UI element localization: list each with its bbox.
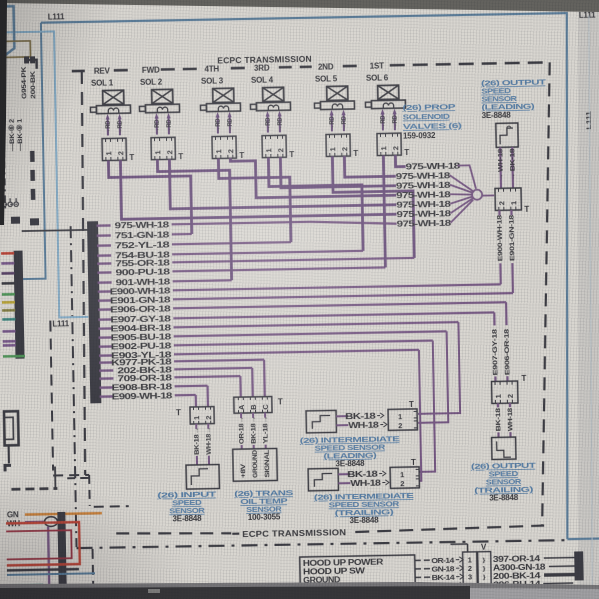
wire K977-PK-18 run [174,360,264,362]
connector (trans oil temp sensor) [234,396,283,413]
wire label A300-GN-18 [493,563,547,573]
wire crimson loop [6,530,72,559]
wire BU-14 to hood pin 4 [415,581,463,591]
wire red loop [6,522,80,565]
trans oil temp sensor body (+8V GROUND SIGNAL) [233,448,278,481]
svg-text:T: T [129,153,134,162]
svg-text:B: B [249,404,258,410]
wire E900-WH-18 run [173,284,501,290]
svg-text:→RD: →RD [166,119,173,133]
svg-text:1: 1 [494,394,503,398]
wire purple w/ splice [25,517,62,527]
svg-text:100-3055: 100-3055 [248,512,281,522]
svg-text:→RD: →RD [265,117,272,131]
ECPC TRANSMISSION top label [217,54,312,66]
svg-text:1: 1 [153,150,162,154]
wire 709-OR to temp sensor pin A [239,376,242,397]
wire stub (#7a7434) [2,309,15,312]
wire label BK-5 2 (rotated) [8,119,17,152]
svg-text:1: 1 [398,412,402,421]
wire label E909-WH-18 [112,391,173,402]
svg-text:T: T [176,408,181,417]
wire stub E902-PU-18 [99,345,113,348]
wire E906-OR-18 drop (trailing) [503,302,511,381]
solenoid valve SOL 2 (FWD) [139,65,184,162]
solenoid valve SOL 1 (REV) [90,66,135,163]
wire 975-WH-18 run [172,220,397,228]
svg-text:WH-18→: WH-18→ [205,427,213,455]
svg-text:T: T [289,150,294,159]
node label L111 (top left) [48,12,65,21]
svg-text:T: T [178,152,183,161]
wire 752-YL-18 run [172,242,291,244]
wire sol6 pin2 to 975 fan row1 [395,155,405,167]
wire label 975-WH-18 (fan 7) [397,218,452,229]
intermediate speed sensor leading: sensor body [306,410,336,433]
wire stub (#6b4a7e) [3,340,16,343]
wire E908 to input sensor pin2 [206,386,209,407]
wire label E903-YL-18 [111,350,172,361]
wire sol4 pin1 to 754-BU-18 [268,156,363,253]
wire OR-14 to hood pin 1 [415,556,463,566]
connector (trailing output sensor) [491,374,527,404]
solenoid valve SOL 3 (4TH) [200,64,245,161]
wire stub (#b43428) [1,252,14,255]
svg-text:1: 1 [264,148,273,152]
svg-text:A: A [237,404,246,410]
harness bus bar [88,222,101,403]
label (26) OUTPUT SPEED SENSOR (LEADING) 3E-8848 [481,77,547,120]
svg-text:+8V: +8V [240,463,247,478]
dashed boundary jog (left-bottom) [50,319,128,507]
wire stub E909-WH-18 [100,395,114,398]
svg-text:→RD: →RD [392,115,399,129]
svg-text:3E-8848: 3E-8848 [172,514,202,524]
wire label 755-OR-18 [115,258,170,269]
wires OR-18 / BK-18 / YL-18 (temp sensor) [238,413,270,450]
output speed sensor trailing: sensor body [492,437,516,459]
wire stub 975-WH-18 [97,224,111,227]
svg-text:❵: ❵ [482,574,487,581]
wire stub 751-GN-18 [97,234,111,237]
wire label E901-GN-18 [110,295,171,306]
intermediate speed sensor trailing: sensor body [308,468,338,491]
wire label E900-WH-18 [110,286,171,297]
wire 900-PU-18 run [172,267,385,271]
svg-text:C: C [261,404,270,410]
svg-text:2: 2 [391,146,400,150]
svg-text:—BK-⑨ 1: —BK-⑨ 1 [16,118,25,151]
wire stub (#6b4a7e) [3,344,16,347]
connector (input speed sensor) [176,407,214,425]
svg-text:1ST: 1ST [370,61,385,70]
input speed sensor: sensor body [186,465,219,490]
wire WH-18 (trailing sensor) [507,403,515,437]
wire 755-OR-18 run [172,258,414,262]
left harness: terminal blobs [11,217,38,225]
node label L111 (top right) [579,11,596,20]
svg-text:3E-8848: 3E-8848 [489,493,519,503]
wire label 975-WH-18 [115,220,170,231]
hood connector pin box [463,552,478,590]
svg-text:REV: REV [94,66,111,75]
wire stub K977-PK-18 [99,361,113,364]
svg-text:L111: L111 [48,12,65,21]
wire L111 (left drop) [13,23,46,279]
left harness: pin marks G954 [25,57,37,69]
svg-text:2: 2 [226,149,235,153]
svg-text:ECPC TRANSMISSION: ECPC TRANSMISSION [242,527,346,539]
wire E907-GY-18 run [173,312,494,318]
svg-text:2: 2 [398,421,402,430]
connector (trailing intermediate) [390,458,420,489]
svg-text:2: 2 [276,148,285,152]
wire stub (#4a3058) [1,272,14,275]
svg-text:159-0932: 159-0932 [403,131,436,141]
svg-text:200-BK: 200-BK [30,71,38,99]
svg-text:1: 1 [214,149,223,153]
bold dashed wire [11,466,57,489]
ECPC bottom dashed border [116,526,544,537]
svg-text:E900-WH-18: E900-WH-18 [496,215,504,262]
svg-text:→ BK-18: → BK-18 [509,148,517,181]
svg-text:4TH: 4TH [204,64,219,73]
svg-text:SOLENOID: SOLENOID [403,112,451,122]
wire E909 to input sensor pin1 [195,395,197,407]
wire label 901-WH-18 [116,277,171,288]
svg-text:→RD: →RD [277,117,284,131]
wire E908-BR-18 run [175,385,208,388]
wire stub (#6b4a7e) [1,262,14,265]
svg-text:1: 1 [104,151,113,155]
left connector (nested rectangles) [4,411,19,463]
wire stub 901-WH-18 [98,281,112,284]
wire stub E900-WH-18 [98,290,112,293]
label (26) PROP SOLENOID VALVES (6) 159-0932 [402,102,462,141]
wire label BK-9 1 (rotated) [16,118,25,151]
label (26) INPUT SPEED SENSOR 3E-8848 [157,490,217,524]
svg-text:WH-18: WH-18 [507,407,514,431]
wire label 975-WH-18 (fan 6) [396,208,451,219]
svg-text:SOL 2: SOL 2 [140,77,163,86]
svg-text:3E-8848: 3E-8848 [350,516,380,526]
solenoid valve SOL 4 (3RD) [250,63,295,160]
wire sol3 pin1 to 752-YL-18 [218,157,291,243]
svg-text:ECPC TRANSMISSION: ECPC TRANSMISSION [217,54,312,66]
svg-text:G954-PK: G954-PK [21,66,29,99]
wire stub (#3f8a4a) [2,293,15,296]
svg-text:SOL 4: SOL 4 [251,75,274,84]
svg-text:VALVES (6): VALVES (6) [403,121,463,131]
svg-text:T: T [353,149,358,158]
photo: left bezel [0,0,7,225]
svg-text:SOL 3: SOL 3 [201,76,224,85]
wire E905-BU-18 run [174,331,447,336]
wire sol6 pin1 to 900-PU-18 [383,155,385,267]
wire label 751-GN-18 [115,230,170,241]
wire label E905-BU-18 [111,332,172,343]
wire sol3 pin2 to 975 fan row4 [230,155,396,198]
svg-text:E901-GN-18: E901-GN-18 [508,214,516,261]
wire stub 755-OR-18 [97,262,111,265]
wire E904-BR-18 run [173,322,458,327]
label (26) TRANS OIL TEMP SENSOR 100-3055 [234,488,294,522]
wire GN-18 to hood pin 2 [415,564,463,574]
wire stub E906-OR-18 [98,308,112,311]
wire stub E907-GY-18 [98,318,112,321]
left harness: round-pin connector [0,198,20,207]
svg-text:❵: ❵ [481,566,486,573]
ECPC TRANSMISSION boundary (top dashed border) [72,62,550,71]
svg-text:T: T [521,374,526,383]
svg-text:OR-18→: OR-18→ [238,416,246,444]
svg-text:1: 1 [400,470,404,479]
wire E900-WH-18 drop [496,210,504,284]
svg-text:2: 2 [400,479,404,488]
svg-text:T: T [239,151,244,160]
svg-text:2: 2 [497,201,506,205]
wire label E904-BR-18 [110,323,171,334]
photo: bottom bezel [0,582,599,592]
label (26) INTERMEDIATE SPEED SENSOR (TRAILING) 3E-8848 [314,491,414,526]
svg-text:→RD: →RD [215,118,222,132]
wire E907-GY-18 drop (trailing) [491,312,499,381]
wire stub (#2c2c30) [2,282,15,285]
wire label 709-OR-18 [117,373,172,384]
wire label 396-BU-14 [493,580,541,590]
svg-text:GN: GN [7,510,19,519]
wire E903-YL-18 run [174,350,419,354]
left harness: olive connector outline [5,41,30,57]
wire stub 754-BU-18 [97,254,111,257]
svg-text:SOL 6: SOL 6 [366,73,389,82]
svg-text:2: 2 [340,147,349,151]
wire 751-GN-18 run [172,233,192,236]
wire label 975-WH-18 (fan 5) [396,199,451,210]
wire label 900-PU-18 [115,267,170,278]
svg-text:T: T [411,458,416,467]
wire E903 to trailing intermediate pin2 [417,350,421,481]
svg-text:BK-18→: BK-18→ [193,427,201,455]
wire label 975-WH-18 (fan 2) [396,170,451,181]
wire E904 to leading intermediate pin1 [416,322,460,414]
wire to bus (black) [22,230,89,231]
svg-text:L111: L111 [579,11,596,20]
svg-text:975-WH-18: 975-WH-18 [397,218,452,229]
wire label E906-OR-18 [110,304,171,315]
wire E901-GN-18 run [173,293,513,299]
svg-text:GROUND: GROUND [252,449,260,478]
wire stub 900-PU-18 [97,271,111,274]
svg-text:BK-18: BK-18 [495,408,502,432]
wire stub E901-GN-18 [98,299,112,302]
ECPC right dashed border [534,62,558,524]
wire label 975-WH-18 (fan 4) [396,189,451,200]
svg-text:→RD: →RD [117,120,124,134]
svg-text:→RD: →RD [329,116,336,130]
dash fragment [67,477,89,479]
svg-text:→ WH-18: → WH-18 [497,148,505,181]
svg-text:2: 2 [116,151,125,155]
wire WH-18 (leading sensor) [497,147,505,188]
wire stub green (bottom of stub bus) [3,355,25,358]
wire label 975-WH-18 (fan 3) [396,180,451,191]
wire stub 202-BK-18 [99,369,113,372]
wire label 752-YL-18 [115,240,170,251]
svg-text:❵: ❵ [481,557,486,564]
left harness: blue hook top corner [0,6,15,59]
svg-text:→RD: →RD [227,118,234,132]
svg-text:WH-18: WH-18 [348,420,379,431]
svg-text:T: T [409,400,414,409]
svg-text:2: 2 [165,150,174,154]
solenoid valve SOL 5 (2ND) [314,62,359,159]
wire stub E904-BR-18 [98,327,112,330]
wire label E908-BR-18 [111,382,172,393]
svg-text:T: T [524,205,529,214]
faint second screen line (far right) [582,16,599,595]
wire L111 (left branch to bus) [0,31,88,319]
connector V marker [450,543,487,553]
node label GN [7,510,19,519]
wire sol2 pin1 to 901-WH-18 [157,158,231,281]
node label L111 (mid left) [52,319,69,328]
wire black horizontal [7,569,79,570]
left margin dash-dot line [3,59,6,211]
wire stub (#b09a28) [2,301,15,304]
wire orange [25,513,102,514]
svg-text:SOL 5: SOL 5 [315,74,338,83]
svg-text:2ND: 2ND [318,62,334,71]
svg-text:→RD: →RD [380,115,387,129]
svg-text:E909-WH-18: E909-WH-18 [112,391,173,402]
wire E901-GN-18 drop [508,210,517,293]
svg-text:1: 1 [328,147,337,151]
node label L111 (right, rotated) [586,111,593,130]
svg-text:3RD: 3RD [254,64,270,73]
solenoid valve SOL 6 (1ST) [365,61,410,158]
wires BK-18 / WH-18 (leading intermediate) [336,410,387,430]
hood signal description box [300,555,416,595]
svg-text:→RD: →RD [341,116,348,130]
photo: top bezel edge [0,0,599,12]
wire stub (#6b4a7e) [3,330,16,333]
left stub bus bar [14,251,24,358]
wire sol5 pin1 to 755-OR-18 [332,155,414,259]
wire label 754-BU-18 [115,250,170,261]
wire E906-OR-18 run [173,302,506,308]
svg-text:L111: L111 [52,319,69,328]
hood harness stub bar [543,552,584,584]
svg-text:E907-GY-18: E907-GY-18 [492,329,500,376]
wire sol4 pin2 to 975 fan row3 [280,155,396,188]
wire stub E903-YL-18 [99,354,113,357]
wire L111 (top horizontal) [41,13,568,23]
heavy black wire (bottom left) [58,512,66,588]
svg-text:(26) PROP: (26) PROP [402,102,455,112]
ECPC TRANSMISSION bottom label [242,527,346,539]
wire E905 to leading intermediate pin2 [417,331,449,423]
wire 901-WH-18 run [173,280,232,281]
wire L111 (right vertical) [558,13,599,540]
wire sol1 pin1 to 751-GN-18 [108,159,191,235]
svg-text:WH-18: WH-18 [350,478,381,489]
wire BK-18 (trailing sensor) [495,403,503,437]
svg-text:1: 1 [379,146,388,150]
svg-text:SOL 1: SOL 1 [91,78,114,87]
ECPC left dashed border [78,71,89,475]
wire E902 to trailing intermediate pin1 [417,341,435,472]
wire sol5 pin2 to 975 fan row2 [344,155,395,177]
svg-text:→RD: →RD [154,119,161,133]
wire stub (#2f7a72) [2,318,15,321]
wire 709-OR-18 run [174,376,240,377]
wire sol2 pin2 to 975 fan row5 [169,155,396,209]
left margin bold dashes [30,151,35,201]
wire label G954-PK (rotated) [21,66,29,99]
wire label 200-BK-14 [493,571,541,581]
wire stub E905-BU-18 [99,336,113,339]
outer dash-dot boundary (bottom) [71,217,566,587]
wire K977-PK to temp sensor pin C [263,360,266,397]
connector (leading output sensor) [495,188,529,215]
wire BK-14 to hood pin 3 [415,573,463,583]
wire stub 752-YL-18 [97,244,111,247]
svg-text:3E-8848: 3E-8848 [335,459,365,469]
svg-text:SIGNAL: SIGNAL [264,449,272,477]
junction node (975 common splice) [450,165,495,223]
svg-text:—BK-⑥ 2: —BK-⑥ 2 [8,119,17,152]
wire label 200-BK (rotated) [30,71,38,99]
wire label K977-PK-18 [111,357,172,368]
wire sol1 pin2 to 975 fan row6 [120,155,396,219]
output speed sensor leading: sensor body [496,123,518,147]
svg-text:1: 1 [192,416,201,420]
svg-text:1: 1 [509,201,518,205]
svg-text:YL-18→: YL-18→ [262,416,270,444]
connector (leading intermediate) [388,400,418,431]
svg-text:3E-8848: 3E-8848 [482,111,512,121]
wires BK-18 / WH-18 (trailing intermediate) [338,468,389,488]
svg-text:→RD: →RD [105,120,112,134]
wire purple drop [48,527,49,587]
node label WH [7,519,21,528]
wire label 397-OR-14 [493,554,541,564]
wire 202-BK-18 run [174,368,252,369]
label (26) INTERMEDIATE SPEED SENSOR (LEADING) 3E-8848 [300,434,400,469]
wire 202-BK to temp sensor pin B [251,368,254,397]
hood connector contact box [478,552,492,590]
svg-text:BK-18→: BK-18→ [250,416,258,444]
wire label 975-WH-18 (fan 1) [405,161,460,172]
wire label 202-BK-18 [117,365,172,376]
wire 754-BU-18 run [172,251,363,255]
svg-text:FWD: FWD [142,66,160,75]
wire label E902-PU-18 [111,341,172,352]
svg-text:T: T [404,148,409,157]
wire label E907-GY-18 [110,314,171,325]
svg-text:2: 2 [506,394,515,398]
label (26) OUTPUT SPEED SENSOR (TRAILING) 3E-8848 [471,461,537,503]
svg-text:2: 2 [204,415,213,419]
wire teal [7,584,43,587]
wire E902-PU-18 run [174,341,433,346]
svg-text:T: T [278,397,283,406]
bold dash corner [5,465,11,471]
wire BK-18 (leading sensor) [509,147,517,188]
wires BK-18 / WH-18 (input sensor) [193,424,213,465]
wire stub E908-BR-18 [100,386,114,389]
